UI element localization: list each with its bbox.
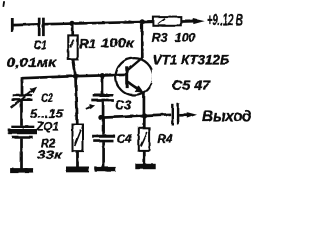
wire collector up <box>140 21 143 57</box>
wire R1 bottom stub <box>73 59 76 76</box>
capacitor C3 (trimmer) <box>93 94 113 97</box>
capacitor C1 <box>37 17 40 35</box>
capacitor C5 <box>171 104 173 125</box>
node: junction dot collector/top rail <box>139 19 144 24</box>
resistor R2 <box>72 124 83 151</box>
wire C4 to ground <box>102 142 105 167</box>
svg-text:R1: R1 <box>79 36 96 51</box>
scan gap on transistor circle right edge <box>151 69 155 83</box>
wire base rail <box>22 74 127 77</box>
wire C3 to emitter rail <box>101 101 104 117</box>
wire down to C4 <box>102 117 105 134</box>
wire R4 to ground <box>142 150 145 164</box>
wire R3 to supply arrow <box>181 19 195 22</box>
wire C1 to R3 (top rail) <box>44 21 153 23</box>
wire base to R2 <box>76 76 77 125</box>
ground (under R4) <box>135 163 155 168</box>
capacitor C2 (variable) <box>12 94 32 96</box>
resistor R3 <box>153 17 181 26</box>
svg-text:С5 47: С5 47 <box>172 77 212 92</box>
svg-text:С2: С2 <box>41 90 53 104</box>
wire emitter dot to R4 <box>142 116 145 128</box>
wire C5 to output arrow <box>179 113 189 116</box>
svg-text:5...15: 5...15 <box>30 108 64 120</box>
resistor R1 <box>68 35 77 59</box>
node: junction dot emitter/R4 <box>141 113 146 118</box>
ground (under C4) <box>94 166 115 171</box>
svg-text:R3: R3 <box>151 31 167 45</box>
wire R1 top stub <box>71 23 74 36</box>
transistor VT1 <box>115 58 152 95</box>
input terminal bar <box>10 18 13 32</box>
node: junction dot base/R1/R2 <box>72 73 77 78</box>
node: junction dot C3/C4/emitter rail <box>98 114 103 119</box>
node: junction dot base/C3 <box>99 73 104 78</box>
svg-text:С1: С1 <box>34 38 47 52</box>
svg-text:0,01мк: 0,01мк <box>6 54 58 69</box>
wire ZQ1 to ground <box>20 138 23 168</box>
svg-text:С4: С4 <box>116 132 132 146</box>
capacitor C4 <box>92 134 115 137</box>
ground (under R2) <box>66 166 89 172</box>
wire terminal to C1 <box>13 22 38 26</box>
wire emitter rail <box>100 114 171 117</box>
wire corner down to C2 <box>20 77 23 95</box>
svg-text:33к: 33к <box>37 147 63 161</box>
wire C2 to ZQ1 <box>20 100 23 125</box>
svg-text:Выход: Выход <box>202 108 251 125</box>
svg-text:VT1 КТ312Б: VT1 КТ312Б <box>152 52 229 67</box>
ground (under ZQ1) <box>10 168 33 173</box>
node: junction dot R1/top rail <box>69 20 74 25</box>
quartz ZQ1 <box>11 125 34 127</box>
svg-text:100к: 100к <box>101 35 135 50</box>
resistor R4 <box>138 128 149 151</box>
svg-text:С3: С3 <box>115 98 131 112</box>
wire base dot to C3 <box>101 75 104 94</box>
svg-text:ZQ1: ZQ1 <box>35 121 58 133</box>
stray mark top-left corner <box>2 1 5 7</box>
svg-text:+9..12 В: +9..12 В <box>207 11 243 29</box>
svg-text:100: 100 <box>175 31 196 45</box>
wire R2 to ground <box>76 151 79 166</box>
svg-text:R4: R4 <box>157 131 173 145</box>
wire emitter down <box>142 92 145 116</box>
